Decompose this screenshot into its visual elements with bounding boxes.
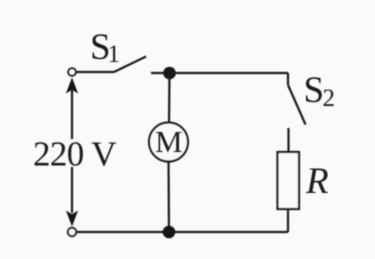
wire S2 lower lead	[287, 128, 289, 152]
switch S2 blade	[288, 85, 306, 125]
node bottom junction	[163, 226, 176, 239]
node top junction	[163, 67, 176, 80]
svg-text:M: M	[155, 124, 183, 159]
source arrow down (head)	[66, 211, 78, 227]
wire top-left horizontal	[76, 71, 114, 73]
svg-text:2: 2	[323, 85, 336, 112]
svg-text:S: S	[304, 70, 325, 111]
svg-text:R: R	[305, 161, 329, 202]
svg-text:220 V: 220 V	[33, 135, 116, 174]
wire resistor to bottom	[287, 209, 289, 232]
wire motor branch upper	[168, 73, 171, 123]
switch S1 blade	[114, 57, 146, 73]
motor M circle	[149, 123, 188, 162]
wire stub to top junction	[151, 72, 170, 74]
resistor R body	[278, 152, 300, 209]
source arrow up (head)	[66, 78, 78, 94]
wire S2 drop	[287, 73, 289, 85]
wire bottom horizontal	[77, 231, 289, 233]
wire motor branch lower	[167, 162, 170, 233]
wire top horizontal	[170, 72, 289, 74]
terminal bottom-left	[68, 228, 76, 236]
source arrow down (line)	[71, 167, 73, 213]
source arrow up (line)	[71, 90, 73, 139]
svg-text:1: 1	[108, 41, 121, 68]
terminal top-left	[68, 68, 76, 76]
